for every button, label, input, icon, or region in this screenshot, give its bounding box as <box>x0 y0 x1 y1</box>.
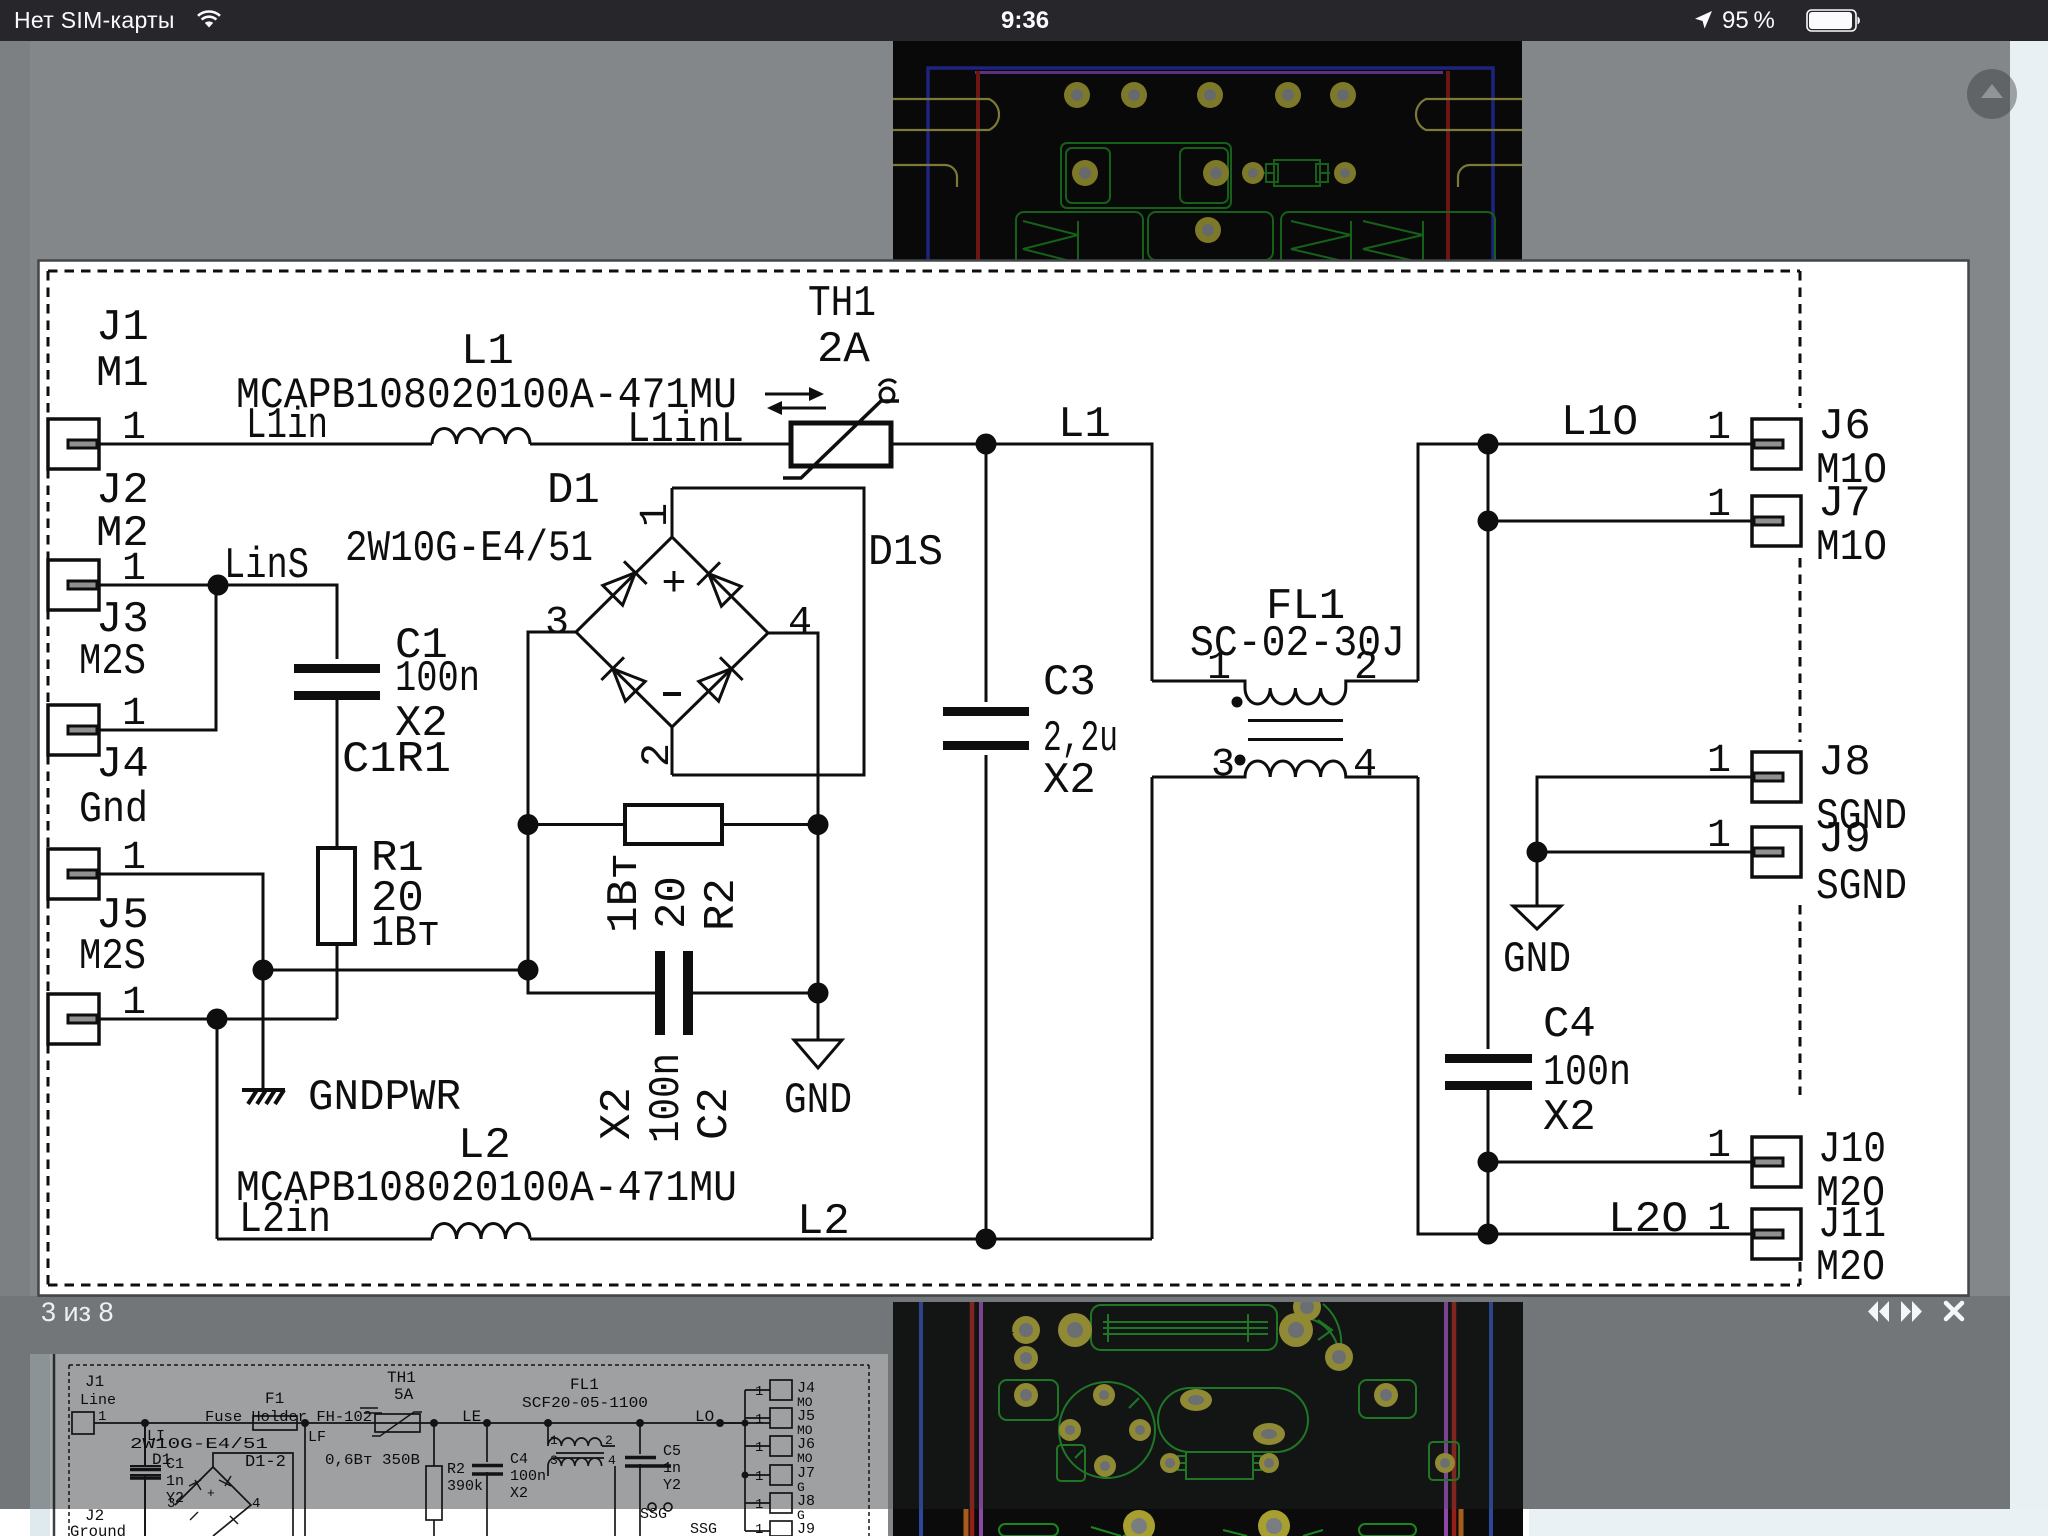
resistor R1 <box>318 848 355 944</box>
D1 pin1 stub <box>671 488 674 537</box>
wire D1S loop <box>672 488 864 775</box>
svg-text:1: 1 <box>1207 646 1231 691</box>
svg-text:X2: X2 <box>1543 1093 1596 1143</box>
connector J11 <box>1752 1209 1801 1259</box>
svg-text:X2: X2 <box>593 1087 643 1140</box>
thumbnail blue margin strip <box>30 1354 50 1536</box>
junction C2 left <box>518 960 539 981</box>
FL1 phase dot pin3 <box>1235 755 1246 766</box>
thumbnail connector J1 <box>72 1412 94 1434</box>
svg-text:C1R1: C1R1 <box>342 735 451 785</box>
junction R2 left <box>518 814 539 835</box>
svg-text:J5: J5 <box>1280 106 1296 121</box>
svg-text:GND: GND <box>1503 935 1571 985</box>
svg-text:L1O: L1O <box>1561 398 1638 448</box>
svg-text:1: 1 <box>1707 814 1731 859</box>
svg-text:M1O: M1O <box>1816 523 1887 573</box>
pad row J1 J3 J4 J5 J2 <box>1064 82 1356 108</box>
svg-text:J7: J7 <box>1818 479 1871 529</box>
svg-text:D1: D1 <box>547 466 600 516</box>
wire C2 right to GND junction <box>693 992 818 995</box>
svg-text:J1: J1 <box>1069 106 1085 121</box>
right component outline <box>1359 1380 1416 1418</box>
footer nav icons <box>1860 1298 1970 1326</box>
pads <box>1012 1293 1455 1536</box>
wire J4 row <box>99 874 263 1083</box>
thumbnail LF vertical <box>304 1423 306 1536</box>
bottom-right light region under footer bar <box>1523 1509 2048 1536</box>
svg-text:J2: J2 <box>1335 106 1351 121</box>
svg-text:1: 1 <box>1707 1197 1731 1242</box>
TH1 stadium outline <box>1158 1388 1308 1452</box>
diode D1a top-left <box>601 561 646 606</box>
thumbnail junction dots <box>141 1419 749 1479</box>
thumbnail R2 <box>433 1423 435 1536</box>
yellow edge cut left <box>893 99 999 130</box>
footer overlay: dim band over backdrop <box>0 1296 2010 1509</box>
svg-text:C4: C4 <box>1543 1000 1596 1050</box>
pads C1 R1 <box>1072 160 1356 243</box>
svg-text:GNDPWR: GNDPWR <box>308 1073 461 1123</box>
wire C4 to J10/J11 <box>1487 1090 1490 1234</box>
svg-text:1: 1 <box>122 692 146 737</box>
junction C3 / L2 <box>976 1229 997 1250</box>
R2 outline <box>1186 1452 1253 1479</box>
svg-text:3: 3 <box>545 601 569 646</box>
svg-text:J3: J3 <box>1126 106 1142 121</box>
inductor L2 outline with zigzag <box>1281 212 1495 272</box>
thumbnail dashed border <box>69 1365 869 1536</box>
wire R2 left lead <box>528 823 625 826</box>
wire C3 branch down <box>985 444 988 702</box>
wire D1 pin4 bus <box>768 633 818 993</box>
junction J7 <box>1478 511 1499 532</box>
junction L1O / J6 <box>1478 434 1499 455</box>
red trace right <box>1452 1302 1457 1536</box>
fuse F1 outline <box>1091 1305 1277 1350</box>
bottom outlines <box>999 1524 1058 1536</box>
thumbnail C5 <box>639 1423 641 1536</box>
svg-text:L2: L2 <box>797 1197 850 1247</box>
svg-text:LinS: LinS <box>224 541 309 591</box>
svg-text:100n: 100n <box>1543 1048 1631 1098</box>
svg-text:C1: C1 <box>1039 168 1055 183</box>
sheet dashed border bottom <box>48 1284 1800 1287</box>
svg-text:2: 2 <box>1354 646 1378 691</box>
wire J8 row <box>1537 777 1752 852</box>
svg-text:R1: R1 <box>1359 168 1375 183</box>
wire J2 LinS row <box>99 585 337 659</box>
thumbnail FL1 transformer <box>548 1423 615 1536</box>
svg-text:1: 1 <box>634 503 679 527</box>
wire L2 row to FL1 pin3 <box>530 1238 1152 1241</box>
thumbnail C4 <box>486 1423 488 1536</box>
connector J1 <box>48 419 99 469</box>
capacitor C1 <box>294 669 380 696</box>
svg-text:GND: GND <box>784 1076 852 1126</box>
svg-text:1Вт: 1Вт <box>600 853 650 933</box>
scroll-to-top button <box>1966 68 2018 120</box>
connector J10 <box>1752 1137 1801 1187</box>
svg-text:J10: J10 <box>1818 1125 1886 1175</box>
transformer FL1 windings <box>1152 681 1418 777</box>
svg-text:+: + <box>661 560 686 608</box>
red trace left <box>970 1302 975 1536</box>
top PCB layout image <box>893 41 1522 262</box>
svg-text:1: 1 <box>1707 1124 1731 1169</box>
wire R2 right lead <box>722 823 818 826</box>
svg-text:C3: C3 <box>1043 658 1096 708</box>
silkscreen labels <box>989 1317 1360 1505</box>
diode D1c bottom-left <box>601 657 646 702</box>
connector J7 <box>1752 496 1801 546</box>
schematic page (white sheet) <box>37 259 1970 1297</box>
wire L2O row to J11 <box>1488 1233 1752 1236</box>
svg-text:J9: J9 <box>797 1521 815 1536</box>
junction J5 net <box>207 1009 228 1030</box>
wire C3 to L2 row <box>985 755 988 1239</box>
wire R1 bottom lead <box>336 944 339 1019</box>
wire D1 pin3 bus <box>528 632 576 970</box>
svg-text:X2: X2 <box>1043 756 1096 806</box>
svg-text:4: 4 <box>1353 743 1377 788</box>
svg-text:J9: J9 <box>1818 815 1871 865</box>
diode D1d bottom-right <box>697 657 742 702</box>
svg-text:1: 1 <box>755 1522 763 1536</box>
yellow edge detail lower left <box>893 165 957 187</box>
capacitor C3 <box>943 712 1029 746</box>
wire C1R1 net <box>336 700 339 848</box>
wire L1O from FL1 pin2 up to J6 <box>1418 444 1752 681</box>
left edge shading strip <box>0 41 30 1296</box>
bottom PCB layout image <box>893 1302 1523 1536</box>
svg-text:1: 1 <box>1707 739 1731 784</box>
svg-text:1: 1 <box>122 836 146 881</box>
capacitor C2 <box>660 951 688 1035</box>
wire L1 net from TH1 to FL1 pin1 corner <box>891 444 1152 681</box>
junction R2 right <box>808 814 829 835</box>
svg-text:L2in: L2in <box>239 1195 331 1245</box>
connector J2 <box>48 560 99 610</box>
purple trace left <box>979 1302 983 1536</box>
wire GNDPWR stub <box>262 970 265 1090</box>
svg-text:J6: J6 <box>1818 402 1871 452</box>
D1 minus mark <box>663 692 681 696</box>
connector J4 <box>48 849 99 899</box>
thumbnail right connector tree <box>720 1390 770 1531</box>
wire J4 junction to C2 bus <box>263 969 528 972</box>
svg-text:Ground: Ground <box>70 1523 126 1536</box>
power ground GNDPWR symbol <box>242 1090 285 1104</box>
FL1 phase dot pin1 <box>1232 697 1243 708</box>
resistor R2 <box>625 805 722 844</box>
connector J3 <box>48 705 99 755</box>
diode D1b top-right <box>697 562 742 607</box>
wire L1inL from L1 to TH1 <box>530 443 791 446</box>
junction J10 <box>1478 1152 1499 1173</box>
bridge BR circle <box>1059 1382 1155 1478</box>
svg-text:1: 1 <box>122 547 146 592</box>
svg-text:100n: 100n <box>395 654 480 704</box>
thumbnail texts <box>70 1369 815 1536</box>
wire L2 left vertical <box>216 1019 219 1239</box>
wire L2 bottom row <box>217 1238 432 1241</box>
component outline left top <box>999 1380 1058 1420</box>
svg-text:M1: M1 <box>96 349 149 399</box>
svg-text:20: 20 <box>648 876 698 929</box>
yellow edge detail lower right <box>1458 165 1522 187</box>
svg-text:SGND: SGND <box>1816 862 1907 912</box>
TH1 arrowhead right <box>809 387 824 401</box>
svg-text:L1: L1 <box>461 327 514 377</box>
footer overlay: wash over bottom PCB <box>893 1296 1523 1509</box>
thumbnail main wire <box>94 1422 770 1424</box>
thumbnail fuse F1 <box>253 1416 297 1430</box>
svg-text:SSG: SSG <box>690 1521 717 1536</box>
connector J9 <box>1752 827 1801 877</box>
junction L2O / J11 <box>1478 1224 1499 1245</box>
thumbnail bridge D1 <box>175 1467 251 1536</box>
varistor RV1 outline <box>1307 1304 1341 1357</box>
yellow edge cut right <box>1416 99 1522 130</box>
svg-text:J1: J1 <box>96 303 149 353</box>
small component left of FL1 <box>1057 1445 1085 1481</box>
svg-text:1: 1 <box>1707 483 1731 528</box>
R1 component outline <box>1264 160 1330 186</box>
svg-text:2: 2 <box>636 743 681 767</box>
blue trace left <box>919 1302 923 1536</box>
svg-text:L2O: L2O <box>1608 1195 1688 1245</box>
svg-text:1: 1 <box>1707 406 1731 451</box>
bidirectional arrows above TH1 <box>765 394 826 408</box>
connector J5 <box>48 994 99 1044</box>
junction at LinS <box>208 575 229 596</box>
wire J3 row up to LinS junction <box>99 585 216 730</box>
top purple trace <box>975 71 1443 74</box>
svg-text:M2S: M2S <box>79 637 146 687</box>
svg-text:J8: J8 <box>1818 738 1871 788</box>
svg-text:1: 1 <box>122 406 146 451</box>
svg-text:1Вт: 1Вт <box>371 909 440 959</box>
wire FL1 pin3 vertical <box>1151 777 1154 1239</box>
thumbnail TH1 <box>375 1414 420 1432</box>
thumbnail SSG circles <box>648 1503 656 1511</box>
junction J4 net <box>253 960 274 981</box>
D1 pin2 stub <box>671 727 674 775</box>
svg-text:1: 1 <box>122 981 146 1026</box>
inductor L1 <box>432 429 530 445</box>
inductor L1 outline with zigzag <box>1016 212 1143 272</box>
red trace right <box>1446 71 1450 262</box>
connector J8 <box>1752 752 1801 802</box>
center component outline <box>1148 212 1273 260</box>
far right light scroll strip <box>2010 41 2048 1536</box>
svg-text:2W10G-E4/51: 2W10G-E4/51 <box>345 524 593 574</box>
svg-text:J4: J4 <box>96 740 149 790</box>
svg-text:4: 4 <box>788 601 812 646</box>
sheet dashed border left <box>47 271 50 1285</box>
STATUS BAR <box>0 0 2048 41</box>
wire J7 row <box>1488 444 1752 521</box>
footer text: 3 of 8 <box>41 1297 114 1328</box>
wire J10 row <box>1488 1161 1752 1164</box>
wire GND stub below C2 <box>817 993 820 1040</box>
C1 component outline <box>1061 143 1231 208</box>
svg-text:J4: J4 <box>1202 106 1218 121</box>
sheet dashed border right <box>1799 271 1802 1285</box>
svg-text:L1: L1 <box>1058 400 1111 450</box>
wire FL1 pin4 down to L2O <box>1418 777 1488 1234</box>
wire L1in row from J1 to L1 <box>99 443 432 446</box>
svg-text:L1in: L1in <box>246 401 328 451</box>
svg-text:C2: C2 <box>690 1087 740 1140</box>
small component right <box>1429 1442 1459 1480</box>
red trace left <box>976 71 980 262</box>
junction SGND <box>1527 842 1548 863</box>
junction TH1 out / C3 <box>976 434 997 455</box>
svg-text:M2O: M2O <box>1816 1243 1885 1293</box>
connector J6 <box>1752 419 1801 469</box>
svg-text:R2: R2 <box>697 878 747 931</box>
svg-text:2A: 2A <box>817 325 870 375</box>
svg-text:D1S: D1S <box>868 528 943 578</box>
blue trace right <box>1489 1302 1493 1536</box>
svg-text:TH1: TH1 <box>808 279 876 329</box>
svg-text:L1inL: L1inL <box>627 405 744 455</box>
ground GND symbol at C2 <box>794 1040 842 1068</box>
wire J5 row <box>99 1018 337 1021</box>
wire J9 row <box>1537 851 1752 854</box>
junction C2 right / GND <box>808 983 829 1004</box>
TH1 arrowhead left <box>767 401 782 415</box>
board edge blue <box>928 68 1493 262</box>
svg-text:M2S: M2S <box>79 932 146 982</box>
orange accents bottom <box>964 1509 969 1536</box>
svg-text:100n: 100n <box>642 1053 692 1143</box>
wire jog to C2 left plate <box>528 970 655 993</box>
svg-text:3: 3 <box>1211 743 1235 788</box>
silkscreen labels <box>1039 106 1375 183</box>
thumbnail connectors J4-J9 <box>770 1380 792 1400</box>
purple trace right <box>1444 1302 1448 1536</box>
inductor L2 <box>432 1223 530 1239</box>
capacitor C4 <box>1445 1059 1532 1086</box>
bridge rectifier D1 diamond <box>576 537 768 727</box>
page 4 preview thumbnail <box>30 1354 888 1536</box>
ground GND symbol at J9 <box>1513 906 1561 929</box>
svg-text:Gnd: Gnd <box>79 785 148 835</box>
footer overlay: extra dim over thumbnail <box>30 1354 888 1509</box>
wire SGND stub <box>1536 852 1539 906</box>
thumbnail C1 <box>130 1423 161 1536</box>
sheet dashed border top <box>48 270 1800 273</box>
thermistor TH1 <box>783 380 899 478</box>
wire vertical bus to C4 <box>1487 521 1490 1049</box>
